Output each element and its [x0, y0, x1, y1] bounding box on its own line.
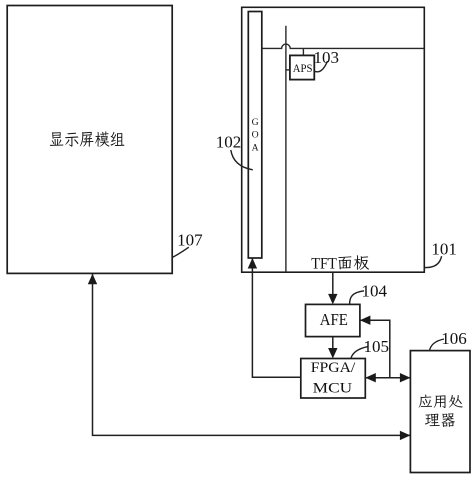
- svg-text:TFT: TFT: [311, 255, 337, 272]
- svg-text:106: 106: [441, 329, 467, 348]
- svg-text:102: 102: [216, 132, 242, 151]
- svg-text:AFE: AFE: [320, 310, 348, 329]
- svg-text:A: A: [252, 143, 259, 154]
- svg-text:107: 107: [177, 231, 203, 250]
- svg-text:O: O: [252, 130, 259, 141]
- svg-text:APS: APS: [293, 61, 313, 75]
- svg-text:G: G: [252, 117, 259, 128]
- svg-text:MCU: MCU: [313, 381, 353, 397]
- svg-text:105: 105: [364, 337, 390, 356]
- svg-text:FPGA/: FPGA/: [311, 360, 357, 376]
- svg-text:101: 101: [431, 240, 457, 259]
- svg-text:104: 104: [362, 282, 388, 301]
- svg-text:103: 103: [314, 48, 340, 67]
